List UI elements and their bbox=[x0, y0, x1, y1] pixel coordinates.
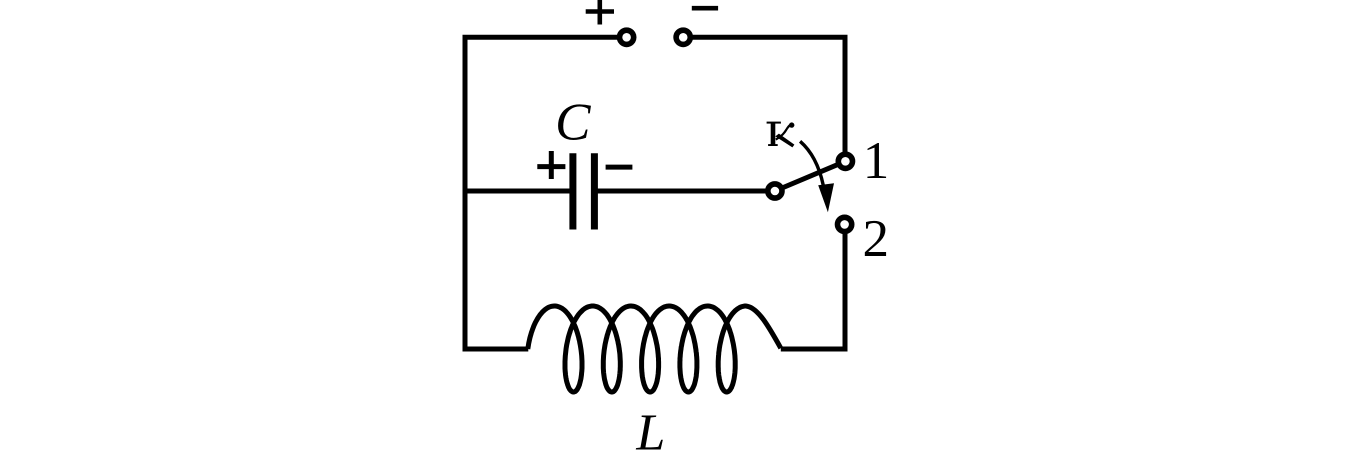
svg-text:2: 2 bbox=[863, 210, 890, 268]
svg-text:C: C bbox=[555, 94, 591, 152]
svg-text:L: L bbox=[635, 405, 665, 451]
svg-text:1: 1 bbox=[863, 132, 890, 190]
